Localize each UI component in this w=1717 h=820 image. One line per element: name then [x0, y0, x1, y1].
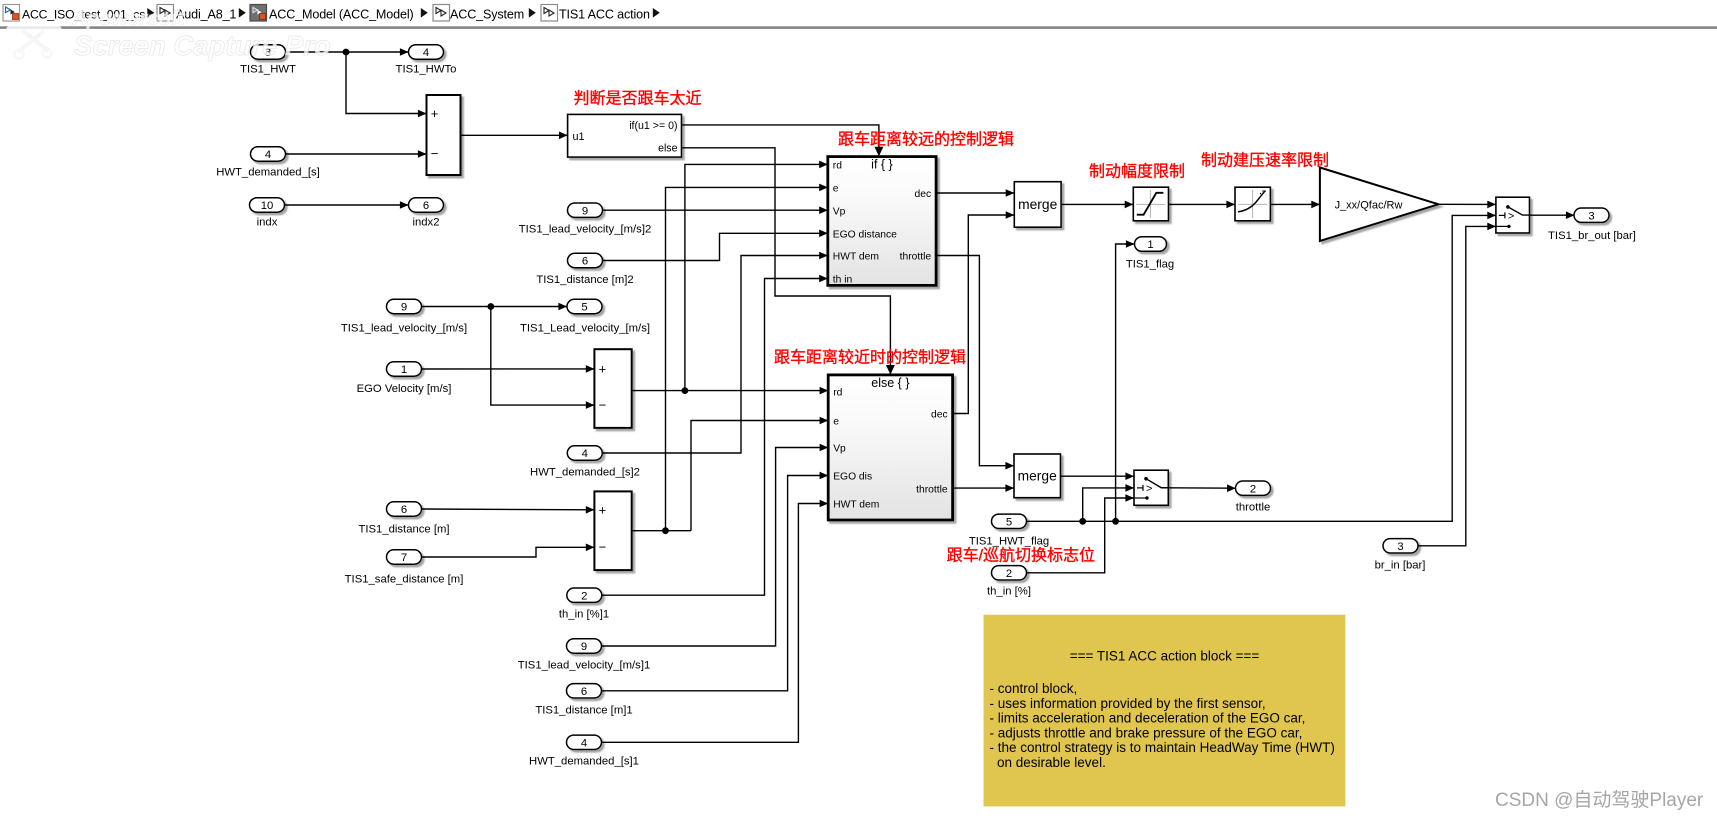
- svg-text:TIS1_distance [m]: TIS1_distance [m]: [358, 524, 449, 536]
- svg-text:2: 2: [1250, 483, 1256, 495]
- wire if condition to if action subsystem: [682, 125, 879, 155]
- if action subsystem if { }: [828, 157, 936, 286]
- svg-text:4: 4: [582, 448, 588, 460]
- svg-text:on desirable level.: on desirable level.: [990, 755, 1106, 770]
- svg-text:HWT_demanded_[s]2: HWT_demanded_[s]2: [530, 467, 640, 479]
- wire else dec to Merge1: [953, 215, 1015, 414]
- svg-text:if { }: if { }: [871, 158, 893, 172]
- svg-text:ACC_System: ACC_System: [450, 8, 524, 22]
- screen capture watermark: [6, 7, 331, 61]
- merge block Merge2: [1014, 454, 1061, 498]
- merge block Merge1: [1014, 182, 1061, 228]
- wire HWT_demanded_[s]1 to else HWT dem: [602, 504, 829, 743]
- svg-text:Screen Capture Pro: Screen Capture Pro: [74, 30, 331, 61]
- outport 1 TIS1_flag: [1126, 237, 1174, 271]
- breadcrumb bar background: [0, 0, 1717, 26]
- svg-text:1: 1: [401, 364, 407, 376]
- wire else throttle to Merge2: [953, 487, 1014, 489]
- svg-text:TIS1_flag: TIS1_flag: [1126, 259, 1174, 271]
- svg-text:TIS1_safe_distance [m]: TIS1_safe_distance [m]: [345, 574, 464, 586]
- svg-text:跟车距离较远的控制逻辑: 跟车距离较远的控制逻辑: [838, 131, 1014, 149]
- svg-text:3: 3: [1397, 541, 1403, 553]
- wire TIS1_distance [m]1 to else EGO dis: [602, 476, 829, 691]
- inport 4 HWT_demanded_[s]1: [529, 735, 639, 767]
- svg-text:Vp: Vp: [833, 444, 846, 455]
- breadcrumb separator line: [0, 26, 1717, 29]
- svg-text:TIS1_lead_velocity_[m/s]: TIS1_lead_velocity_[m/s]: [341, 323, 467, 335]
- inport 1 EGO Velocity [m/s]: [357, 362, 452, 395]
- svg-text:br_in [bar]: br_in [bar]: [1375, 560, 1426, 572]
- if block U_if (u1): [568, 114, 682, 157]
- sum block Sum3: [594, 491, 631, 570]
- svg-text:dec: dec: [931, 410, 948, 421]
- breadcrumb arrow 3: [421, 8, 428, 18]
- svg-text:Audi_A8_1: Audi_A8_1: [176, 8, 236, 22]
- svg-text:indx: indx: [257, 217, 278, 229]
- svg-text:>: >: [1146, 483, 1152, 495]
- svg-text:EGO Velocity [m/s]: EGO Velocity [m/s]: [357, 383, 452, 395]
- svg-text:th_in [%]: th_in [%]: [987, 586, 1031, 598]
- wire TIS1_lead_velocity_[m/s]1 to else Vp: [602, 448, 829, 647]
- breadcrumb arrow 1: [147, 8, 154, 18]
- inport 9 TIS1_lead_velocity_[m/s]2: [519, 203, 652, 236]
- svg-text:- adjusts throttle and brake p: - adjusts throttle and brake pressure of…: [990, 725, 1303, 740]
- wire junction to Sum1 plus input: [346, 52, 427, 114]
- svg-text:TIS1_HWT: TIS1_HWT: [240, 64, 296, 76]
- gain block J_xx/Qfac/Rw: [1320, 168, 1439, 242]
- wire HWT_demanded_[s] to Sum1 minus input: [286, 153, 427, 155]
- breadcrumb arrow 4: [529, 8, 536, 18]
- svg-text:TIS1_distance [m]2: TIS1_distance [m]2: [536, 274, 633, 286]
- wire TIS1_distance [m]2 to if EGO distance: [603, 233, 828, 260]
- svg-text:跟车/巡航切换标志位: 跟车/巡航切换标志位: [947, 547, 1095, 565]
- svg-text:TIS1_HWT_flag: TIS1_HWT_flag: [969, 536, 1049, 548]
- svg-text:判断是否跟车太近: 判断是否跟车太近: [573, 90, 701, 108]
- wire th_in [%]1 to if th in: [602, 279, 828, 596]
- svg-text:ACC_Model (ACC_Model): ACC_Model (ACC_Model): [269, 8, 414, 22]
- svg-text:th_in [%]1: th_in [%]1: [559, 609, 609, 621]
- breadcrumb item ACC_System: [433, 5, 524, 22]
- svg-text:throttle: throttle: [1236, 502, 1271, 514]
- wire junction to Switch2 control: [1083, 488, 1134, 521]
- wire Sum2 to else rd: [632, 390, 829, 392]
- outport 3 TIS1_br_out [bar]: [1548, 208, 1636, 242]
- svg-text:indx2: indx2: [412, 217, 439, 229]
- breadcrumb arrow 5: [653, 8, 660, 18]
- wire Sum1 to If block input u1: [461, 134, 568, 136]
- svg-text:- control block,: - control block,: [990, 681, 1078, 696]
- svg-text:−: −: [431, 146, 439, 161]
- breadcrumb item ACC_ISO_test_001_cs: [3, 5, 145, 22]
- svg-text:TIS1_HWTo: TIS1_HWTo: [396, 64, 457, 76]
- svg-text:6: 6: [581, 686, 587, 698]
- inport 6 TIS1_distance [m]1: [535, 684, 632, 717]
- svg-text:- limits acceleration and dece: - limits acceleration and deceleration o…: [990, 711, 1306, 726]
- inport 2 th_in [%]1: [559, 588, 609, 621]
- wire indx to indx2: [285, 204, 409, 206]
- svg-text:dec: dec: [914, 189, 931, 200]
- wire else condition to else action subsystem: [682, 148, 891, 374]
- svg-text:- the control strategy is to m: - the control strategy is to maintain He…: [990, 740, 1335, 755]
- svg-text:6: 6: [582, 256, 588, 268]
- wire Rate Limiter to Gain: [1270, 203, 1320, 205]
- svg-text:e: e: [833, 417, 839, 428]
- wire Switch1 to TIS1_br_out: [1530, 214, 1575, 216]
- svg-text:1: 1: [1147, 239, 1153, 251]
- svg-text:merge: merge: [1018, 469, 1057, 484]
- junction flag to TIS1_flag: [1112, 518, 1119, 525]
- junction on Sum3 output: [662, 527, 669, 534]
- sum block Sum2: [594, 349, 631, 428]
- junction on lead velocity wire: [487, 303, 494, 310]
- outport 6 indx2: [409, 198, 444, 229]
- svg-text:HWT dem: HWT dem: [833, 500, 879, 511]
- svg-text:−: −: [599, 540, 607, 555]
- svg-text:TIS1_lead_velocity_[m/s]1: TIS1_lead_velocity_[m/s]1: [518, 660, 651, 672]
- saturation block: [1133, 187, 1168, 221]
- wire EGO Velocity to Sum2 plus input: [422, 368, 595, 370]
- svg-text:throttle: throttle: [916, 484, 948, 495]
- svg-text:跟车距离较近时的控制逻辑: 跟车距离较近时的控制逻辑: [774, 349, 966, 367]
- inport 2 th_in [%]: [987, 566, 1031, 598]
- inport 10 indx: [250, 198, 285, 229]
- inport 3 br_in [bar]: [1375, 539, 1426, 572]
- breadcrumb item Audi_A8_1: [157, 5, 236, 22]
- svg-text:制动建压速率限制: 制动建压速率限制: [1201, 152, 1329, 170]
- svg-text:9: 9: [401, 302, 407, 314]
- wire br_in to Switch1 input 3: [1418, 226, 1496, 545]
- outport 2 throttle: [1236, 481, 1271, 514]
- svg-text:Apowersoft: Apowersoft: [71, 7, 186, 30]
- wire Merge2 to Switch2 input 1: [1061, 475, 1135, 477]
- svg-text:EGO distance: EGO distance: [833, 230, 897, 241]
- svg-text:throttle: throttle: [900, 252, 932, 263]
- svg-text:TIS1_br_out [bar]: TIS1_br_out [bar]: [1548, 230, 1636, 242]
- svg-text:- uses information provided by: - uses information provided by the first…: [990, 696, 1266, 711]
- wire if throttle to Merge2: [936, 256, 1014, 466]
- svg-text:e: e: [833, 184, 839, 195]
- svg-text:7: 7: [401, 552, 407, 564]
- svg-text:if(u1 >= 0): if(u1 >= 0): [629, 120, 677, 132]
- switch block Switch1: [1496, 197, 1530, 233]
- inport 9 TIS1_lead_velocity_[m/s]: [341, 299, 467, 334]
- svg-text:+: +: [599, 362, 607, 377]
- svg-text:EGO dis: EGO dis: [833, 472, 872, 483]
- wire junction to Sum2 minus input: [491, 307, 595, 406]
- svg-text:rd: rd: [833, 387, 842, 398]
- outport 4 TIS1_HWTo: [396, 45, 457, 76]
- svg-text:5: 5: [581, 302, 587, 314]
- svg-text:TIS1_Lead_velocity_[m/s]: TIS1_Lead_velocity_[m/s]: [520, 323, 650, 335]
- svg-text:CSDN @自动驾驶Player: CSDN @自动驾驶Player: [1495, 789, 1704, 811]
- wire if dec to Merge1: [936, 192, 1014, 194]
- svg-text:TIS1 ACC action: TIS1 ACC action: [559, 8, 650, 22]
- svg-text:else { }: else { }: [871, 376, 909, 390]
- sum block Sum1: [427, 95, 461, 175]
- svg-text:4: 4: [423, 47, 429, 59]
- svg-text:Vp: Vp: [833, 206, 846, 217]
- wire Sum3 output to junction: [632, 530, 691, 532]
- svg-text:4: 4: [581, 737, 587, 749]
- rate limiter block: [1235, 187, 1270, 221]
- svg-text:制动幅度限制: 制动幅度限制: [1089, 163, 1185, 181]
- svg-text:9: 9: [582, 205, 588, 217]
- inport 7 TIS1_safe_distance [m]: [345, 550, 464, 586]
- wire Gain to Switch1: [1438, 203, 1496, 205]
- wire TIS1_lead_velocity_[m/s]2 to if Vp: [603, 209, 828, 211]
- inport 6 TIS1_distance [m]: [358, 502, 449, 536]
- junction flag to Merge2 switch: [1079, 518, 1086, 525]
- svg-text:6: 6: [401, 504, 407, 516]
- wire junction to TIS1_flag: [1116, 244, 1135, 521]
- else action subsystem else { }: [828, 375, 952, 520]
- wire TIS1_safe_distance to Sum3 minus input: [422, 547, 595, 557]
- inport 5 TIS1_HWT_flag: [969, 514, 1049, 547]
- svg-text:−: −: [599, 397, 607, 412]
- svg-text:rd: rd: [833, 161, 842, 172]
- svg-text:2: 2: [1006, 568, 1012, 580]
- inport 6 TIS1_distance [m]2: [536, 253, 633, 286]
- wire HWT_demanded_[s]2 to if HWT dem: [602, 256, 828, 454]
- breadcrumb item ACC_Model (ACC_Model): [250, 5, 414, 22]
- inport 8 TIS1_HWT: [240, 45, 296, 76]
- wire Saturation to Rate Limiter: [1169, 203, 1236, 205]
- wire TIS1_HWT to TIS1_HWTo: [286, 51, 409, 53]
- svg-text:HWT dem: HWT dem: [833, 252, 879, 263]
- wire th_in [%] to Switch2 input 3: [1026, 498, 1134, 573]
- svg-text:HWT_demanded_[s]1: HWT_demanded_[s]1: [529, 756, 639, 768]
- breadcrumb arrow 2: [239, 8, 246, 18]
- switch block Switch2: [1134, 470, 1168, 505]
- svg-text:TIS1_lead_velocity_[m/s]2: TIS1_lead_velocity_[m/s]2: [519, 224, 652, 236]
- wire TIS1_lead_velocity to TIS1_Lead_velocity: [422, 306, 568, 308]
- inport 4 HWT_demanded_[s]: [216, 147, 320, 179]
- svg-text:+: +: [431, 106, 439, 121]
- svg-text:5: 5: [1006, 516, 1012, 528]
- svg-text:4: 4: [265, 149, 271, 161]
- wire junction to if e: [666, 187, 828, 530]
- junction on Sum2 output: [682, 387, 689, 394]
- svg-text:J_xx/Qfac/Rw: J_xx/Qfac/Rw: [1335, 199, 1403, 211]
- junction on TIS1_HWT wire: [343, 49, 350, 56]
- wire Merge1 to Saturation: [1061, 203, 1133, 205]
- svg-text:merge: merge: [1018, 197, 1057, 212]
- svg-text:9: 9: [581, 641, 587, 653]
- svg-text:u1: u1: [573, 131, 585, 143]
- svg-text:th in: th in: [833, 275, 853, 286]
- svg-text:3: 3: [1588, 210, 1594, 222]
- svg-text:2: 2: [581, 590, 587, 602]
- svg-text:HWT_demanded_[s]: HWT_demanded_[s]: [216, 167, 320, 179]
- inport 9 TIS1_lead_velocity_[m/s]1: [518, 639, 651, 672]
- outport 5 TIS1_Lead_velocity_[m/s]: [520, 299, 650, 334]
- yellow note TIS1 ACC action block description: [984, 615, 1346, 807]
- inport 4 HWT_demanded_[s]2: [530, 446, 640, 479]
- svg-text:10: 10: [261, 200, 274, 212]
- svg-text:>: >: [1508, 210, 1514, 222]
- wire Switch2 to throttle outport: [1168, 487, 1235, 489]
- wire junction to else e: [691, 421, 828, 531]
- svg-text:else: else: [658, 143, 678, 155]
- svg-text:+: +: [599, 502, 607, 517]
- svg-text:6: 6: [423, 200, 429, 212]
- wire junction to if rd: [685, 164, 828, 390]
- breadcrumb item TIS1 ACC action: [541, 5, 650, 22]
- wire TIS1_distance to Sum3 plus input: [422, 508, 595, 511]
- wire TIS1_HWT_flag to Switch1 control: [1026, 215, 1496, 521]
- svg-text:TIS1_distance [m]1: TIS1_distance [m]1: [535, 705, 632, 717]
- svg-text:=== TIS1 ACC action block ===: === TIS1 ACC action block ===: [1070, 649, 1260, 664]
